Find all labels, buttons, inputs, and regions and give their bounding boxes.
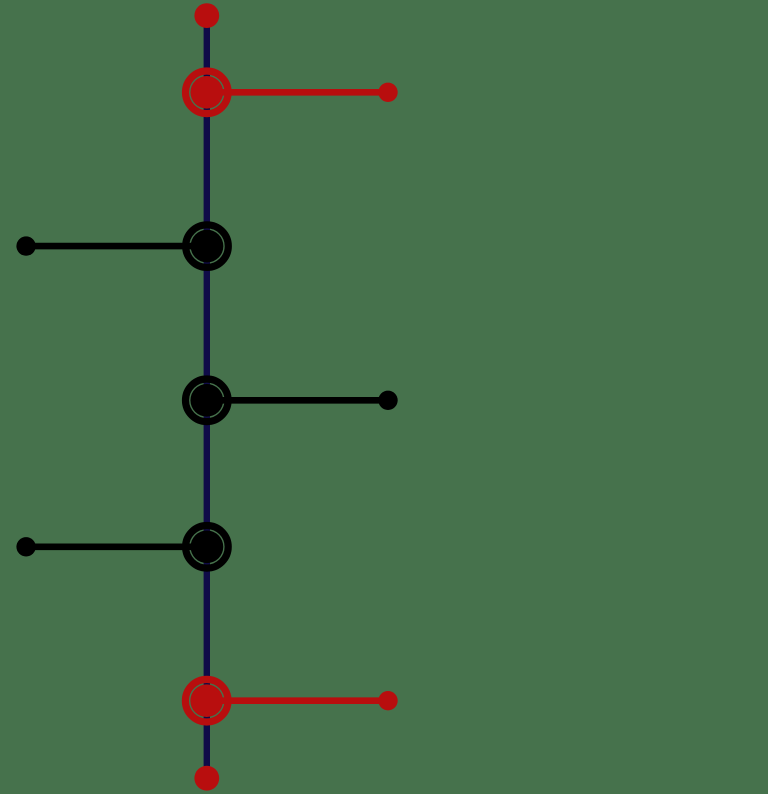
- node T-top: top terminal atom (red dot): [194, 3, 219, 28]
- node N2: ringed atom (black) on backbone: [186, 225, 229, 268]
- wire: branch bond B2 (black, node N2 to left terminal): [26, 243, 207, 250]
- node E2: left end atom of branch B2 (black dot): [16, 236, 35, 255]
- node N1: ringed atom (red) on backbone: [186, 71, 229, 114]
- wire: branch bond B3 (black, node N3 to right terminal): [207, 397, 388, 404]
- node N5: ringed atom (red) on backbone: [185, 679, 228, 722]
- wire: branch bond B4 (black, node N4 to left terminal): [26, 543, 207, 550]
- wire: branch bond B1 (red, node N1 to right terminal): [207, 89, 388, 96]
- node T-bottom: bottom terminal atom (red dot): [194, 766, 219, 791]
- node E5: right end atom of branch B5 (red dot): [378, 691, 397, 710]
- node E3: right end atom of branch B3 (black dot): [378, 391, 397, 410]
- node E1: right end atom of branch B1 (red dot): [378, 83, 397, 102]
- wire: vertical backbone bond (navy) from top terminal to bottom terminal: [204, 16, 210, 779]
- node N4: ringed atom (black) on backbone: [186, 526, 229, 569]
- wire: branch bond B5 (red, node N5 to right terminal): [207, 697, 388, 704]
- node N3: ringed atom (black) on backbone: [186, 379, 229, 422]
- node E4: left end atom of branch B4 (black dot): [16, 537, 35, 556]
